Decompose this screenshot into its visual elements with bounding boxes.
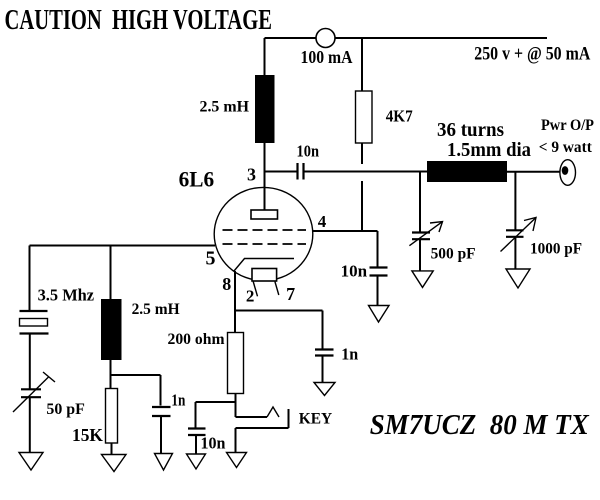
grid dashed line 1 bbox=[223, 229, 307, 231]
capacitor C10 1000pF plates bbox=[506, 230, 524, 237]
meter M1 100mA bbox=[316, 29, 335, 48]
beam plate line bbox=[234, 259, 294, 272]
wire L1 to output bbox=[507, 171, 560, 173]
arrow C9 variable bbox=[409, 222, 442, 246]
wire crystal to C7 bbox=[29, 334, 31, 389]
wire RFC2 bottom bbox=[110, 360, 112, 389]
svg-text:2.5 mH: 2.5 mH bbox=[132, 301, 181, 318]
wire C9 to ground bbox=[419, 240, 421, 272]
wire pin3 horizontal to C1 bbox=[265, 171, 297, 173]
svg-text:50 pF: 50 pF bbox=[46, 401, 85, 418]
wire R1 to screen node bbox=[361, 181, 363, 231]
capacitor C9 500pF plates bbox=[412, 233, 430, 240]
key jack ground line bbox=[236, 427, 289, 429]
wire R3 bottom bbox=[235, 394, 237, 418]
svg-text:8: 8 bbox=[222, 274, 231, 294]
crystal X1 top plate bbox=[20, 310, 48, 312]
capacitor C2 10n screen bypass bbox=[370, 268, 388, 276]
svg-text:2: 2 bbox=[246, 287, 255, 306]
wire cathode node horizontal bbox=[235, 310, 323, 312]
ground G1 crystal branch bbox=[19, 453, 43, 471]
svg-text:1000 pF: 1000 pF bbox=[530, 241, 582, 258]
ground G6 below C4 bbox=[314, 383, 335, 396]
svg-text:100 mA: 100 mA bbox=[301, 47, 353, 67]
wire C1 to tank bbox=[305, 171, 428, 173]
wire branch to C8 bbox=[196, 401, 236, 403]
crystal X1 bottom plate bbox=[20, 332, 49, 334]
svg-text:3: 3 bbox=[247, 165, 256, 185]
wire down to C4 bbox=[322, 311, 324, 349]
svg-text:4K7: 4K7 bbox=[386, 106, 413, 125]
key jack tip chevron bbox=[267, 407, 279, 417]
ground G3 below C6 bbox=[155, 454, 173, 471]
svg-text:15K: 15K bbox=[72, 425, 103, 445]
svg-text:250 v + @ 50 mA: 250 v + @ 50 mA bbox=[474, 45, 591, 65]
wire C2 to ground bbox=[377, 276, 379, 306]
svg-text:500 pF: 500 pF bbox=[431, 246, 476, 263]
svg-text:3.5 Mhz: 3.5 Mhz bbox=[38, 286, 95, 305]
svg-text:10n: 10n bbox=[201, 434, 226, 453]
pin 2 lead bbox=[253, 282, 257, 297]
wire C10 to ground bbox=[514, 238, 516, 270]
svg-text:7: 7 bbox=[286, 284, 295, 304]
pin 7 lead bbox=[275, 282, 279, 296]
wire C4 to ground bbox=[322, 356, 324, 383]
wire pin8 vertical bbox=[234, 271, 236, 333]
resistor R1 4K7 bbox=[356, 91, 373, 143]
svg-text:4: 4 bbox=[318, 212, 327, 231]
key jack tip line bbox=[236, 416, 268, 418]
crystal X1 body bbox=[20, 319, 48, 327]
cathode of V1 bbox=[252, 269, 277, 282]
key jack sleeve bbox=[288, 409, 290, 428]
svg-text:SM7UCZ 80 M TX: SM7UCZ 80 M TX bbox=[370, 410, 590, 441]
ground G4 below C8 bbox=[187, 454, 206, 469]
svg-text:200 ohm: 200 ohm bbox=[168, 331, 226, 348]
svg-text:1n: 1n bbox=[341, 345, 359, 364]
wire grid down to RFC2 bbox=[110, 246, 112, 300]
inductor L1 36 turns bbox=[427, 161, 507, 182]
wire B+ down to R1 bbox=[361, 38, 363, 91]
arrow C10 variable bbox=[501, 218, 537, 252]
wire tank junction to C9 bbox=[419, 172, 421, 233]
ground G7 screen bypass bbox=[369, 306, 390, 323]
anode plate of V1 bbox=[251, 210, 278, 219]
capacitor C7 50pF trimmer plates bbox=[21, 389, 41, 397]
resistor R3 200 ohm bbox=[228, 333, 244, 394]
wire grid down to crystal bbox=[29, 246, 31, 312]
svg-text:CAUTION HIGH VOLTAGE: CAUTION HIGH VOLTAGE bbox=[5, 4, 273, 36]
wire pin5 horizontal bbox=[30, 245, 216, 247]
wire R1 bottom bbox=[361, 143, 363, 164]
wire plate pin3 vertical bbox=[264, 143, 266, 210]
svg-text:36 turns: 36 turns bbox=[437, 119, 504, 141]
wire down to C8 bbox=[195, 402, 197, 428]
svg-text:6L6: 6L6 bbox=[179, 167, 215, 192]
ground G8 below C9 bbox=[412, 271, 433, 288]
wire B+ down to RFC1 bbox=[264, 38, 266, 76]
wire down to C6 bbox=[160, 375, 162, 406]
capacitor C1 10n coupling bbox=[298, 163, 304, 180]
svg-text:10n: 10n bbox=[297, 142, 320, 161]
grid dashed line 2 bbox=[223, 243, 307, 245]
ground G5 key bbox=[227, 453, 247, 468]
wire pin4 horizontal bbox=[313, 230, 378, 232]
inductor RFC2 2.5 mH bbox=[101, 299, 122, 360]
svg-text:Pwr O/P: Pwr O/P bbox=[541, 117, 594, 134]
wire junction to C10 bbox=[514, 172, 516, 230]
capacitor C6 1n bbox=[152, 407, 171, 416]
connector J1 output bbox=[560, 160, 576, 186]
ground G2 below 15K bbox=[102, 455, 127, 472]
svg-text:1n: 1n bbox=[171, 391, 185, 410]
wire pin4 down to C2 bbox=[377, 231, 379, 267]
wire R2 to ground bbox=[111, 443, 113, 455]
svg-text:KEY: KEY bbox=[299, 410, 333, 427]
resistor R2 15K bbox=[106, 389, 118, 444]
svg-text:1.5mm dia: 1.5mm dia bbox=[447, 140, 531, 161]
wire C6 to ground bbox=[160, 417, 162, 454]
inductor RFC1 2.5 mH bbox=[255, 75, 275, 143]
svg-text:< 9 watt: < 9 watt bbox=[539, 139, 593, 156]
wire key to ground bbox=[235, 428, 237, 453]
svg-text:2.5 mH: 2.5 mH bbox=[200, 98, 250, 115]
trimmer arrow C7 bbox=[13, 372, 55, 412]
ground G9 below C10 bbox=[506, 269, 530, 288]
wire junction to C5 bbox=[111, 374, 161, 376]
tube V1 6L6 envelope bbox=[214, 187, 313, 280]
wire B+ top horizontal bbox=[265, 37, 548, 39]
wire C8 to ground bbox=[195, 436, 197, 455]
wire C7 to ground bbox=[29, 398, 31, 453]
svg-text:5: 5 bbox=[206, 248, 216, 270]
svg-text:10n: 10n bbox=[341, 261, 368, 280]
capacitor C8 10n key bypass bbox=[188, 429, 206, 436]
capacitor C4 1n cathode bypass bbox=[315, 350, 334, 356]
